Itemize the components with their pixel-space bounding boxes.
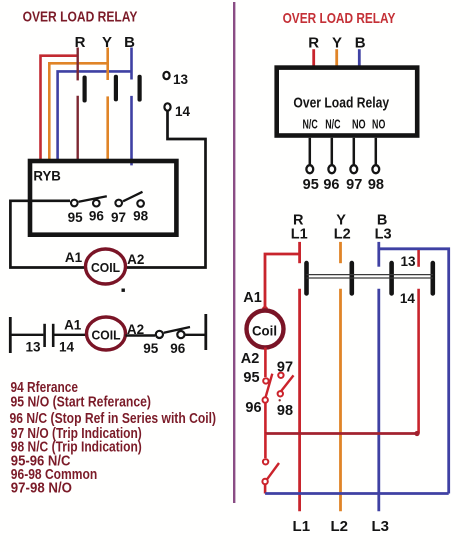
contact terminal 96 circle (in box) [93,200,100,207]
contact arm 95-96 (right) [266,374,273,398]
svg-text:A1: A1 [65,250,83,265]
contact terminal 98 circle (right) [278,391,283,396]
svg-text:13: 13 [173,72,189,87]
contactor main contact bar pole R (left) [83,76,87,103]
svg-text:13: 13 [400,254,416,269]
svg-text:96: 96 [89,208,105,223]
wire B phase vertical lower (left) [130,96,133,165]
contact terminal 95 circle (in box) [71,200,78,207]
terminal lead 98 (right box) [375,138,378,165]
wire orange Y branch (left) [49,63,107,159]
svg-text:Over Load Relay: Over Load Relay [293,95,389,112]
svg-text:98: 98 [277,403,293,419]
svg-text:95: 95 [303,177,319,193]
contact terminal 95 circle (right) [263,378,268,383]
wire red R stub (right) [312,49,315,71]
svg-text:L2: L2 [330,518,348,535]
svg-text:L2: L2 [334,226,351,242]
stray dot below 98 [279,399,281,401]
svg-text:95: 95 [68,210,84,225]
svg-text:B: B [124,34,135,51]
wire Y phase vertical lower (left) [106,96,109,160]
divider line between panels [233,2,235,503]
wire blue B stub (right) [358,49,361,71]
svg-text:95 N/O (Start Referance): 95 N/O (Start Referance) [11,394,152,410]
ladder rung: wire left rail to contact 13 [10,334,43,336]
svg-text:96: 96 [323,177,339,193]
svg-text:COIL: COIL [92,328,121,343]
svg-text:B: B [355,35,366,52]
svg-text:R: R [75,34,86,51]
wire L1 upper segment [298,242,301,263]
terminal lead 97 (right box) [353,138,356,165]
ladder rung: right rail [204,314,207,350]
wire Y phase vertical upper (left) [106,48,109,81]
wire orange Y stub (right) [335,49,338,71]
terminal 14 circle (left) [164,103,170,110]
svg-text:97-98 N/O: 97-98 N/O [11,481,72,497]
start contact arm (right bottom) [266,463,279,480]
terminal 98 circle (right box) [372,165,379,173]
wire black from contact 95 out of box to coil A1 (left) [10,201,85,268]
svg-text:N/C: N/C [303,117,318,131]
svg-text:OVER LOAD RELAY: OVER LOAD RELAY [283,10,396,27]
svg-text:Coil: Coil [252,323,277,339]
svg-text:NO: NO [372,117,385,131]
blue return line horizontal (bottom) [265,492,449,495]
wire blue branch to holding contact [379,249,449,494]
contact arm 95-96 (in box) [79,196,107,202]
contact arm 97-98 (in box) [123,192,143,202]
svg-text:13: 13 [25,340,41,355]
coil (right) [247,311,284,348]
svg-text:14: 14 [400,291,416,306]
contact arm 95-96 (rung) [164,327,190,333]
svg-text:R: R [308,35,319,52]
svg-text:OVER LOAD RELAY: OVER LOAD RELAY [23,10,138,26]
start contact lower circle (right bottom) [262,479,267,484]
ladder rung: wire contact 96 to right rail [185,334,206,336]
wire L2 lower segment to bottom [339,289,342,512]
contact arm 97-98 (right) [281,375,294,391]
svg-text:L1: L1 [291,226,308,242]
junction dot at 14 stub [414,431,419,436]
ladder rung: wire contact to coil [54,334,87,336]
svg-text:95: 95 [243,370,259,386]
wire contact 96 down to control line [264,403,267,434]
ladder rung: NO contact plate 13 [43,324,46,347]
aux contact stub 14 (red) down to control line [417,289,420,434]
wire blue B branch (left) [58,71,132,159]
svg-text:A1: A1 [243,290,262,306]
coil (left main) [86,249,126,284]
contact terminal 96 circle (right) [263,397,268,402]
contactor linkage line upper [307,274,433,276]
svg-text:97: 97 [111,210,126,225]
svg-text:95: 95 [143,341,159,356]
svg-text:14: 14 [175,104,191,119]
overload relay box RYB (left) [30,161,176,235]
terminal 97 circle (right box) [350,165,357,173]
aux contact stub 13 (red) [417,250,420,267]
control line horizontal (dark red) [265,432,418,435]
contact terminal 97 circle (right) [278,373,283,378]
ladder rung: NO contact plate 14 [52,324,55,347]
contact terminal 95 circle (rung) [156,331,163,338]
svg-text:RYB: RYB [33,168,61,184]
wire red branch L1 to coil A1 [265,254,300,310]
junction dot coil A1 [262,306,268,312]
svg-text:COIL: COIL [91,260,120,275]
svg-text:96: 96 [245,400,261,416]
wire L1 lower segment to bottom [298,289,301,512]
wire red R branch (left) [41,56,78,159]
wire R phase vertical upper (left) [76,48,78,81]
wire start contact to blue return [264,485,267,494]
svg-text:A2: A2 [127,252,144,267]
wire L2 upper segment [339,242,342,263]
contactor pole bar L1 (right) [304,261,309,296]
svg-text:98: 98 [368,177,384,193]
terminal 96 circle (right box) [328,165,335,173]
svg-text:A1: A1 [64,318,82,333]
contact terminal 98 circle (in box) [137,200,144,207]
svg-text:L1: L1 [293,518,311,535]
svg-text:NO: NO [352,117,366,131]
svg-text:A2: A2 [241,351,260,367]
terminal lead 95 (right box) [309,138,312,165]
ladder rung: wire coil to contact 95 [126,334,156,336]
svg-text:97: 97 [346,177,362,193]
contactor linkage line lower [307,277,433,279]
contactor main contact bar pole B (left) [138,75,142,102]
wire B phase vertical upper (left) [130,48,133,80]
wire black from terminal 14 to coil A2 (left) [126,111,206,268]
wire L3 lower segment to bottom [377,289,380,512]
stray dot below coil [122,289,125,292]
svg-text:14: 14 [59,340,75,355]
coil (rung) [87,317,126,350]
svg-text:96 N/C (Stop Ref in Series wit: 96 N/C (Stop Ref in Series with Coil) [10,411,217,427]
wire control line down to start contact [264,434,267,459]
overload relay box (right) [277,68,418,136]
terminal lead 96 (right box) [331,138,334,165]
wire R phase vertical lower (left) [76,96,78,160]
svg-text:Y: Y [332,35,342,52]
start contact upper circle (right bottom) [263,459,268,464]
ladder rung: left rail [9,317,12,353]
wire coil A2 to contact 95 [264,348,267,378]
contact terminal 96 circle (rung) [177,331,184,338]
contact terminal 97 circle (in box) [115,200,122,207]
svg-text:L3: L3 [371,518,389,535]
contactor pole bar L3 (right) [389,261,394,296]
svg-text:98: 98 [133,208,149,223]
contactor pole bar L2 (right) [350,261,355,296]
wire L3 upper segment [377,242,380,267]
svg-text:96: 96 [170,341,186,356]
terminal 95 circle (right box) [306,165,313,173]
terminal 13 circle (left) [163,72,169,79]
svg-text:N/C: N/C [325,117,340,131]
svg-text:L3: L3 [375,226,392,242]
contactor pole bar aux (right) [431,261,436,296]
contactor main contact bar pole Y (left) [114,75,118,102]
